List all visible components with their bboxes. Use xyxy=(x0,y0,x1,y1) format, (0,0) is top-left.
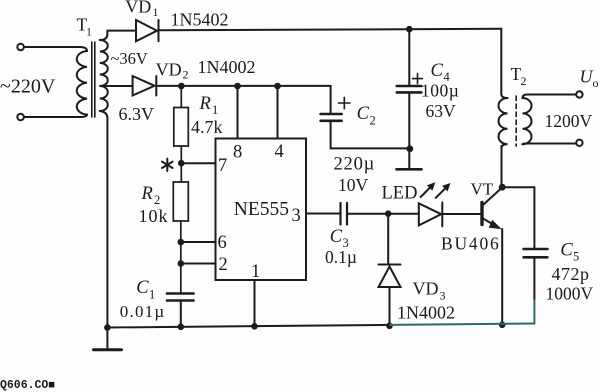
IC U1 NE555 box xyxy=(216,139,307,281)
svg-text:3: 3 xyxy=(292,206,301,226)
LED arrow 2 xyxy=(436,189,445,198)
input terminal top xyxy=(17,44,24,51)
svg-text:VD: VD xyxy=(125,0,151,16)
svg-text:1: 1 xyxy=(153,5,159,19)
transformer T1 primary winding xyxy=(77,47,87,117)
svg-text:1: 1 xyxy=(251,262,260,282)
svg-text:1N4002: 1N4002 xyxy=(198,57,256,77)
wire C3 to LED node xyxy=(348,213,419,215)
wire T1 secondary bottom lead to ground rail xyxy=(100,111,108,328)
input terminal bottom xyxy=(17,114,24,121)
label C1 xyxy=(136,278,155,302)
junction dot pin2 node xyxy=(178,260,185,267)
diode VD3 xyxy=(387,214,389,264)
svg-text:2: 2 xyxy=(370,114,376,128)
label C5 xyxy=(560,241,579,264)
svg-text:0.1µ: 0.1µ xyxy=(325,247,357,267)
LED D1 xyxy=(419,203,443,227)
C2 plus sign xyxy=(339,97,351,109)
junction dot top rail C4 xyxy=(406,26,413,33)
svg-text:5: 5 xyxy=(573,250,579,264)
capacitor C2 xyxy=(330,86,332,113)
svg-text:1: 1 xyxy=(86,24,92,38)
wire ground rail right xyxy=(390,324,534,325)
resistor R1 xyxy=(174,86,189,182)
svg-text:8: 8 xyxy=(233,143,242,163)
diode VD2 xyxy=(133,76,157,96)
wire VCC rail VD2 cathode to C2 xyxy=(158,85,331,87)
svg-text:3: 3 xyxy=(440,289,446,303)
svg-text:1000V: 1000V xyxy=(546,284,594,304)
svg-text:VD: VD xyxy=(156,59,182,79)
label T2 xyxy=(511,64,527,88)
wire LED cathode to VT base xyxy=(444,213,481,215)
wire C4 bottom xyxy=(408,93,410,168)
label R2 xyxy=(141,184,161,207)
svg-text:VT: VT xyxy=(471,179,494,198)
transformer T1 core xyxy=(92,42,95,117)
wire VD3 anode to rail xyxy=(389,287,391,326)
svg-text:2: 2 xyxy=(521,74,527,88)
wire C2 bottom to C4 node xyxy=(331,122,410,149)
svg-text:o: o xyxy=(593,76,599,90)
junction dot C2/C4 node xyxy=(406,145,413,152)
junction dot pin6 node xyxy=(178,239,185,246)
svg-text:~36V: ~36V xyxy=(111,49,148,68)
junction dot emitter rail xyxy=(499,322,506,329)
transformer T2 primary lead from top rail xyxy=(501,29,507,98)
svg-text:6.3V: 6.3V xyxy=(119,104,155,124)
svg-text:BU406: BU406 xyxy=(441,234,501,254)
svg-text:C: C xyxy=(560,241,573,261)
junction dot pin8 wire top xyxy=(234,83,241,90)
capacitor C5 xyxy=(533,187,535,247)
diode VD1 xyxy=(136,20,159,41)
svg-text:Q606.CO■: Q606.CO■ xyxy=(0,379,55,392)
capacitor C3 xyxy=(341,203,348,225)
node star mark xyxy=(162,159,173,171)
svg-text:4: 4 xyxy=(275,142,284,162)
output terminal top xyxy=(576,91,582,97)
svg-text:C: C xyxy=(431,61,444,81)
svg-text:LED: LED xyxy=(382,184,418,204)
svg-text:10V: 10V xyxy=(338,175,369,195)
transformer T1 secondary winding xyxy=(100,40,108,111)
VT collector xyxy=(483,189,501,206)
svg-text:1N5402: 1N5402 xyxy=(171,10,229,30)
svg-text:2: 2 xyxy=(219,255,228,275)
label Uo xyxy=(580,66,599,90)
svg-text:472p: 472p xyxy=(552,264,590,284)
wire input bottom to T1 primary xyxy=(24,116,80,118)
junction dot R1/R2/pin7 node xyxy=(178,160,185,167)
capacitor C1 xyxy=(167,294,194,301)
label R1 xyxy=(199,94,219,117)
svg-text:2: 2 xyxy=(154,193,160,207)
svg-text:VD: VD xyxy=(413,279,439,299)
label VD3 xyxy=(413,279,446,303)
transistor VT BU406 base bar xyxy=(480,203,483,225)
LED arrow 1 xyxy=(421,188,430,197)
svg-text:100µ: 100µ xyxy=(421,81,459,101)
resistor R2 xyxy=(173,182,188,293)
svg-text:C: C xyxy=(357,104,370,124)
capacitor C4 xyxy=(408,29,410,85)
wire pin7 xyxy=(181,162,215,164)
label C3 xyxy=(330,227,349,250)
svg-text:U: U xyxy=(580,66,594,86)
svg-text:220µ: 220µ xyxy=(334,155,376,175)
wire input top to T1 primary xyxy=(24,46,80,48)
output terminal bottom xyxy=(576,140,582,146)
svg-text:2: 2 xyxy=(183,68,189,82)
label VD1 xyxy=(125,0,158,19)
wire pin3 output xyxy=(306,213,340,215)
label T1 xyxy=(77,15,93,39)
junction dot R1 top xyxy=(178,83,185,90)
svg-text:C: C xyxy=(330,227,343,247)
transformer T2 core (dashed) xyxy=(515,96,517,146)
svg-text:R: R xyxy=(141,184,153,204)
junction dot collector node xyxy=(499,184,506,191)
transformer T2 secondary winding xyxy=(523,95,532,145)
junction dot C3/LED/VD3 node xyxy=(385,210,392,217)
svg-text:10k: 10k xyxy=(139,206,169,226)
svg-text:6: 6 xyxy=(218,233,227,253)
svg-text:1: 1 xyxy=(212,103,218,117)
wire collector node to T2 bottom xyxy=(501,146,503,187)
VT emitter xyxy=(483,219,495,226)
svg-text:~220V: ~220V xyxy=(0,76,56,98)
wire pin2 xyxy=(181,263,216,265)
wire pin4 xyxy=(277,86,279,139)
wire emitter to rail xyxy=(501,229,503,325)
wire C5 bottom to rail xyxy=(533,259,535,301)
wire pin8 xyxy=(237,86,239,139)
svg-text:C: C xyxy=(136,278,149,298)
ground bar C4 xyxy=(397,168,422,171)
wire T2 secondary bottom to output xyxy=(528,143,576,145)
junction dot rail left xyxy=(104,324,111,331)
junction dot VD3 rail xyxy=(386,323,393,330)
ground symbol xyxy=(106,328,108,349)
wire pin6 xyxy=(181,241,216,243)
C4 plus sign xyxy=(413,74,423,84)
svg-text:7: 7 xyxy=(218,156,227,176)
label C4 xyxy=(431,61,451,84)
wire ground rail left xyxy=(107,325,390,328)
wire C1 bottom to rail xyxy=(180,302,182,328)
wire collector node to C5 xyxy=(502,186,534,188)
wire pin1 to rail xyxy=(254,280,256,326)
svg-text:0.01µ: 0.01µ xyxy=(120,302,166,321)
svg-text:R: R xyxy=(199,94,211,114)
wire T1 secondary top lead xyxy=(100,31,136,40)
svg-text:4.7k: 4.7k xyxy=(191,117,223,137)
junction dot pin1 rail xyxy=(251,323,258,330)
label VD2 xyxy=(156,59,189,81)
junction dot C1 rail xyxy=(178,324,185,331)
svg-text:1200V: 1200V xyxy=(545,111,593,131)
svg-text:1N4002: 1N4002 xyxy=(397,303,455,323)
junction dot pin4 wire top xyxy=(274,83,281,90)
svg-text:NE555: NE555 xyxy=(234,199,289,220)
svg-text:1: 1 xyxy=(149,288,155,302)
transformer T2 primary winding xyxy=(499,98,508,148)
wire T1 tap to VD2 anode xyxy=(100,85,133,87)
svg-text:63V: 63V xyxy=(426,101,457,121)
wire T2 secondary top to output xyxy=(528,94,577,96)
wire top rail VD1 cathode to T2 xyxy=(159,29,502,31)
label C2 xyxy=(357,104,376,128)
